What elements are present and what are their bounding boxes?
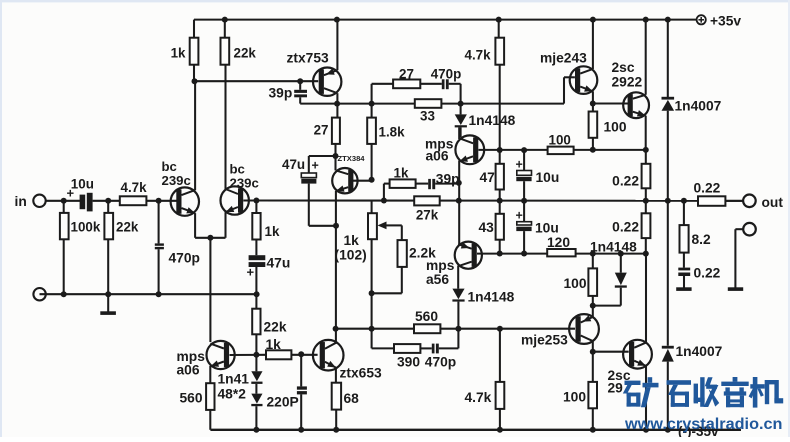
svg-text:2sc: 2sc <box>612 60 635 75</box>
wire Q7 emitter down <box>592 91 594 111</box>
svg-text:120: 120 <box>547 235 570 250</box>
node rail-2sc29 <box>643 427 649 433</box>
wire lower bus <box>336 328 575 330</box>
svg-text:239c: 239c <box>230 176 259 191</box>
wire rung1k right <box>435 183 459 185</box>
node row253-10u <box>521 251 527 257</box>
wire tail down <box>209 238 211 342</box>
svg-text:1n4007: 1n4007 <box>676 344 723 359</box>
resistor R25 8.2 <box>680 201 712 253</box>
node bus-d1 <box>458 101 464 107</box>
node pot-2.2k <box>369 290 375 296</box>
svg-text:2922: 2922 <box>612 75 643 90</box>
resistor R22 100 <box>589 112 627 150</box>
svg-text:bc: bc <box>162 159 177 174</box>
wire Q12 collector up <box>645 254 647 343</box>
node bus-1n4007 <box>665 198 671 204</box>
capacitor C9 10u <box>516 201 559 254</box>
node C1-22k <box>105 198 111 204</box>
ground symbol zobel <box>676 287 691 291</box>
wire to out terminal <box>725 200 743 202</box>
node row150-10u <box>521 147 527 153</box>
node lbus-459 <box>455 326 461 332</box>
transistor Q10 ztx653 <box>313 340 344 371</box>
resistor R13 2.2k <box>398 240 437 293</box>
transistor Q1 bc239c <box>171 187 199 215</box>
resistor R5 22k <box>221 20 257 65</box>
diode D6 1n4148 <box>251 384 262 430</box>
wire rung390 left <box>372 329 394 349</box>
resistor R30 1k bias <box>266 337 292 359</box>
node Q3c bus <box>334 101 340 107</box>
wire Q1 collector up <box>194 81 196 190</box>
svg-text:47u: 47u <box>267 256 291 271</box>
wire mid bus <box>243 199 743 201</box>
svg-text:1n4148: 1n4148 <box>469 113 516 128</box>
svg-text:1k: 1k <box>171 46 186 61</box>
svg-text:100: 100 <box>563 276 586 291</box>
svg-text:(102): (102) <box>335 248 367 263</box>
svg-text:+: + <box>516 209 523 223</box>
svg-text:1n41: 1n41 <box>218 372 250 387</box>
node base Q1 / 470p <box>156 198 162 204</box>
svg-text:100: 100 <box>604 120 627 135</box>
terminal in return <box>33 288 45 300</box>
svg-text:1k: 1k <box>394 166 409 181</box>
wire ground bus <box>40 293 257 295</box>
resistor R8 33 <box>415 99 442 123</box>
wire R3 to Q1 base <box>146 200 177 202</box>
capacitor C11 470p <box>425 344 456 370</box>
resistor R10 1k <box>390 166 416 188</box>
wire Q6 base row <box>477 253 646 255</box>
transistor Q5 mpsa06 <box>455 135 484 164</box>
wire rung27 left <box>372 84 394 104</box>
resistor R12 27k <box>414 196 440 222</box>
label Q9 mps a06 <box>177 349 206 378</box>
capacitor C2 470p <box>155 201 200 294</box>
svg-text:100k: 100k <box>71 220 101 235</box>
svg-text:4.7k: 4.7k <box>121 180 148 195</box>
svg-text:ztx753: ztx753 <box>287 51 330 66</box>
svg-text:1k: 1k <box>344 233 360 248</box>
node 0.22-junction <box>643 251 649 257</box>
svg-text:bc: bc <box>230 162 245 177</box>
wire Q10 emitter down <box>335 367 337 382</box>
resistor R32 100 <box>563 382 597 430</box>
wire C1 to R3 <box>93 200 120 202</box>
power terminal +35v <box>697 14 742 29</box>
wire +35v top rail <box>194 19 697 21</box>
svg-text:470p: 470p <box>431 67 462 82</box>
resistor R28 560 <box>180 383 215 430</box>
diode D1 1n4148 <box>455 104 516 138</box>
label Q12 2sc 29 <box>608 368 631 396</box>
svg-text:0.22: 0.22 <box>612 220 639 235</box>
node gnd-470p <box>156 291 162 297</box>
node row253-100 <box>590 251 596 257</box>
wire Q5 base row <box>479 149 646 151</box>
node rail-mje243 <box>590 17 596 23</box>
svg-text:68: 68 <box>344 391 360 406</box>
capacitor C4 470p <box>431 67 462 90</box>
svg-text:470p: 470p <box>425 355 456 370</box>
svg-text:43: 43 <box>479 220 495 235</box>
wire Q5 collector <box>458 127 460 139</box>
wire rung1k mid <box>416 183 429 185</box>
capacitor C1 10u <box>67 177 94 212</box>
svg-text:22k: 22k <box>116 220 139 235</box>
node rail-1n4007b <box>665 427 671 433</box>
resistor R7 27v <box>314 118 340 144</box>
pot wiper arrow <box>378 222 402 241</box>
svg-text:29: 29 <box>608 381 624 396</box>
svg-text:47: 47 <box>480 170 496 185</box>
node row150-end <box>643 147 649 153</box>
node bus-10u <box>521 198 527 204</box>
wire rung390 right <box>439 329 459 349</box>
svg-text:220P: 220P <box>267 395 299 410</box>
node bus-0.22 <box>643 198 649 204</box>
node rung1k-39p <box>456 180 462 186</box>
svg-text:ZTX384: ZTX384 <box>338 154 366 163</box>
wire mje253c to 2sc base <box>593 351 629 353</box>
resistor R16 100h <box>548 132 574 154</box>
transistor Q8 2sc2922 <box>623 92 649 118</box>
wire rung27 mid <box>420 83 442 85</box>
node in-100k <box>61 198 67 204</box>
svg-text:33: 33 <box>420 109 435 124</box>
svg-text:22k: 22k <box>264 320 287 335</box>
resistor R15 47 <box>480 164 504 201</box>
capacitor C8 10u <box>516 150 560 201</box>
node rail-1n4007 <box>665 17 671 23</box>
svg-text:560: 560 <box>180 391 203 406</box>
capacitor C12 220P <box>267 355 307 430</box>
node feedback <box>253 198 259 204</box>
svg-text:0.22: 0.22 <box>612 174 639 189</box>
capacitor C6 39p <box>428 171 459 189</box>
node bus-1k39p-right <box>456 198 462 204</box>
node mje253e <box>590 303 596 309</box>
wire Q6 collector down <box>457 266 459 289</box>
node rail-220p <box>298 427 304 433</box>
svg-text:www.crystalradio.cn: www.crystalradio.cn <box>624 416 783 433</box>
transistor Q12 2sc2922b <box>623 340 652 369</box>
node 47u-emitter <box>333 223 339 229</box>
svg-text:1n4148: 1n4148 <box>468 290 515 305</box>
resistor R27 4.7k low <box>465 329 505 430</box>
capacitor C10 0.22 <box>678 253 720 288</box>
resistor R1 100k <box>60 201 101 294</box>
wire 1k to ztx653 base <box>291 354 317 356</box>
label Q1 bc239c <box>162 159 191 188</box>
terminal out return <box>728 223 756 291</box>
svg-text:a56: a56 <box>426 272 449 287</box>
node rail-4.7k <box>496 17 502 23</box>
label ztx753 <box>287 51 330 66</box>
wire Q9 emitter down <box>209 366 211 383</box>
node fb-gnd <box>254 291 260 297</box>
wire Q1c node to ztx753 base <box>195 80 319 82</box>
svg-text:27: 27 <box>314 123 329 138</box>
wire pot bottom <box>372 239 402 329</box>
svg-text:1n4148: 1n4148 <box>590 240 637 255</box>
capacitor C5 47u <box>282 156 336 226</box>
label Q2 bc239c <box>230 162 259 191</box>
transistor Q9 mpsa06 <box>207 341 235 369</box>
node mje253c <box>590 349 596 355</box>
node rail-22k <box>222 17 228 23</box>
svg-text:mje253: mje253 <box>521 333 568 348</box>
transistor Q7 mje243 <box>570 66 598 94</box>
label (-)-35v <box>678 424 719 439</box>
node bus-1k39p-left <box>381 198 387 204</box>
node mje243e <box>590 101 596 107</box>
label Q8 2sc 2922 <box>612 60 643 90</box>
node lbus-ztx <box>333 326 339 332</box>
label Q6 mps a56 <box>426 258 455 287</box>
watermark url <box>624 416 783 433</box>
diode D7 1n4007 <box>662 201 723 430</box>
capacitor C7 47u fb <box>247 240 291 295</box>
svg-text:239c: 239c <box>162 173 191 188</box>
wire Q3 emitter to rail <box>336 20 338 71</box>
svg-text:560: 560 <box>415 309 438 324</box>
wire Q12 emitter down <box>645 366 647 430</box>
svg-text:a06: a06 <box>177 363 200 378</box>
wire bus vas <box>300 103 564 105</box>
wire rung27 right <box>449 84 461 104</box>
svg-text:in: in <box>15 194 27 209</box>
svg-text:mps: mps <box>426 258 455 273</box>
resistor R21 100 <box>563 254 597 306</box>
wire e-node row <box>593 305 621 307</box>
wire Q2 emitter down <box>224 212 226 238</box>
transistor Q6 mpsa56 <box>455 242 482 269</box>
svg-text:10u: 10u <box>536 170 560 185</box>
wire Q4 base <box>353 180 372 182</box>
svg-text:a06: a06 <box>426 149 449 164</box>
label mje253 <box>521 333 568 348</box>
resistor R26 0.22 out <box>694 181 726 206</box>
node Q4b-1.8k <box>369 177 375 183</box>
wire Q11 collector down <box>592 341 594 382</box>
svg-text:1.8k: 1.8k <box>379 125 406 140</box>
node 39p top <box>297 78 303 84</box>
wire Q4 emitter down <box>335 191 337 329</box>
svg-text:39p: 39p <box>269 85 293 100</box>
resistor R11 1k fb <box>252 201 280 240</box>
svg-text:4.7k: 4.7k <box>465 48 492 63</box>
wire mje243e to 2sc base <box>593 102 629 104</box>
wire in to C1 <box>46 200 80 202</box>
node rail-4.7k low <box>497 427 503 433</box>
svg-text:100: 100 <box>563 390 586 405</box>
transistor Q3 ztx753 <box>313 68 341 96</box>
svg-text:48*2: 48*2 <box>218 387 247 402</box>
svg-text:8.2: 8.2 <box>692 232 712 247</box>
resistor R17 43 <box>479 201 504 254</box>
wire Q4 collector up <box>334 144 336 171</box>
node rail-68 <box>333 427 339 433</box>
wire Q9 base <box>230 354 267 356</box>
wire Q7 collector to rail <box>592 20 594 69</box>
wire rung1k left <box>384 184 390 201</box>
node bus-47-43 <box>497 198 503 204</box>
transistor Q2 bc239c <box>221 186 249 214</box>
svg-text:+: + <box>247 265 255 280</box>
svg-text:22k: 22k <box>234 46 257 61</box>
resistor R23 560h <box>414 309 440 333</box>
terminal OUT <box>743 195 783 211</box>
resistor R31 68 <box>332 383 359 430</box>
label Q5 mps a06 <box>425 137 454 164</box>
svg-text:0.22: 0.22 <box>694 266 721 281</box>
label ZTX384 <box>338 154 366 163</box>
svg-text:+35v: +35v <box>710 14 741 29</box>
diode D5 1n4148 <box>218 355 263 402</box>
transistor Q4 ztx384 <box>332 168 357 193</box>
svg-text:4.7k: 4.7k <box>465 390 492 405</box>
resistor R18 0.22 <box>612 150 650 201</box>
svg-text:mje243: mje243 <box>540 51 587 66</box>
pot RV1 1k(102) <box>335 202 377 263</box>
capacitor C3 39p <box>269 81 308 103</box>
node bus-8.2 <box>681 198 687 204</box>
svg-text:1k: 1k <box>266 337 282 352</box>
node rail-2sc2922 <box>643 17 649 23</box>
svg-text:470p: 470p <box>169 251 200 266</box>
svg-text:27: 27 <box>399 67 414 82</box>
resistor R20 120 <box>547 235 576 256</box>
node row253-43 <box>497 251 503 257</box>
wire Q8 emitter down <box>645 116 647 150</box>
label mje243 <box>540 51 587 66</box>
wire emitter join <box>195 237 225 239</box>
node Q1c-1k <box>192 78 198 84</box>
wire bus up to mje243 base <box>564 77 575 103</box>
wire Q11 emitter up <box>592 306 594 318</box>
wire Q2 collector up <box>224 65 226 189</box>
node Q4c-47u <box>333 153 339 159</box>
svg-text:390: 390 <box>397 355 420 370</box>
resistor R24 390 <box>394 344 420 369</box>
wire Q2 base to node <box>243 199 264 201</box>
node rail-Q3 <box>334 17 340 23</box>
wire rung390 mid <box>420 347 431 349</box>
node row150-100 <box>590 147 596 153</box>
svg-text:0.22: 0.22 <box>694 181 721 196</box>
svg-text:100: 100 <box>549 132 571 147</box>
node row150-47 <box>497 147 503 153</box>
svg-text:10u: 10u <box>71 177 94 192</box>
wire -35v bottom rail <box>210 429 741 431</box>
resistor R9 1.8k <box>367 104 405 180</box>
svg-text:1n4007: 1n4007 <box>675 99 722 114</box>
svg-text:1k: 1k <box>265 224 280 239</box>
transistor Q11 mje253 <box>569 314 599 344</box>
diode D2 1n4148 <box>452 289 514 329</box>
svg-text:10u: 10u <box>535 221 559 236</box>
wire Q3 collector down <box>336 93 338 117</box>
node ztx653 base-220p <box>298 351 304 357</box>
resistor R3 4.7k <box>120 180 147 205</box>
diode D3 1n4007 <box>662 20 722 201</box>
wire Q1 emitter down <box>194 213 196 238</box>
ground symbol input <box>100 294 116 315</box>
watermark CJK text <box>623 377 783 408</box>
node gnd-22k <box>105 291 111 297</box>
svg-text:47u: 47u <box>282 157 305 172</box>
resistor R4 1k <box>171 20 199 82</box>
node lbus-4.7k <box>497 326 503 332</box>
resistor R2 22k <box>104 201 138 294</box>
resistor R6 27 <box>393 67 420 89</box>
resistor R14 4.7k <box>465 20 505 164</box>
label ztx653 <box>340 366 383 381</box>
node rail-d6 <box>253 427 259 433</box>
diode D4 1n4148 <box>590 240 637 306</box>
svg-text:ztx653: ztx653 <box>340 366 383 381</box>
node lbus-371 <box>369 326 375 332</box>
node bias-22k <box>253 352 259 358</box>
node rail-mje253 <box>590 427 596 433</box>
wire Q10 collector up <box>335 329 337 344</box>
svg-text:+: + <box>312 159 319 173</box>
wire Q5 emitter <box>458 161 460 245</box>
node bus-1.8k <box>369 101 375 107</box>
svg-text:+: + <box>516 158 523 172</box>
terminal IN <box>15 194 46 209</box>
resistor R29 22k bias <box>252 294 287 355</box>
node row253-4148 <box>618 251 624 257</box>
node tail <box>207 235 213 241</box>
wire Q8 collector to rail <box>645 20 647 95</box>
node gnd-100k <box>61 291 67 297</box>
resistor R19 0.22 <box>612 201 650 254</box>
svg-text:out: out <box>762 195 784 210</box>
svg-text:27k: 27k <box>416 208 439 223</box>
